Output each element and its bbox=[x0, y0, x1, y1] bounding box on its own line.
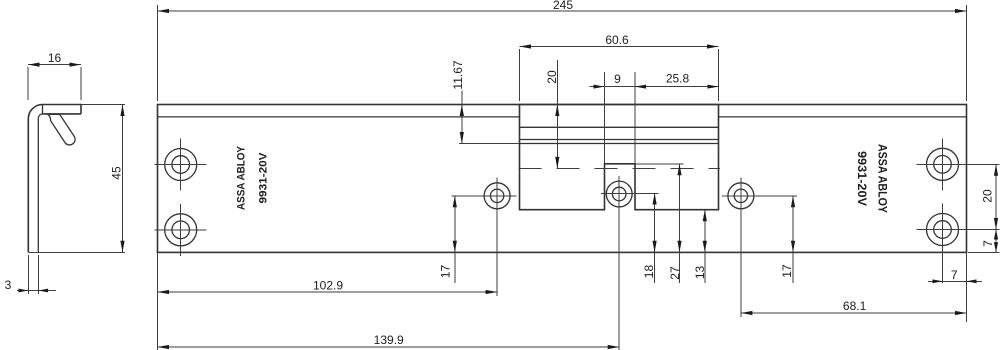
bracket latch keeper bbox=[48, 114, 75, 145]
block dashed centerline bbox=[519, 167, 721, 169]
dim 139.9 bbox=[158, 333, 620, 349]
dim 9 and 25.8 bbox=[590, 72, 719, 164]
bracket fillet tangent tick bbox=[42, 105, 44, 114]
hole H5 mid-left bbox=[452, 178, 517, 297]
dim 7 bottom-right horizontal bbox=[928, 268, 982, 283]
strike block outline with bottom notch bbox=[520, 105, 719, 210]
dim 17 right bbox=[780, 196, 795, 283]
bracket side view outer profile bbox=[28, 105, 81, 253]
dim 102.9 bbox=[158, 252, 498, 350]
dim 11.67 bbox=[451, 60, 520, 143]
bracket inner face bbox=[38, 114, 43, 253]
svg-text:102.9: 102.9 bbox=[313, 279, 343, 293]
dim 245 bbox=[158, 0, 967, 101]
dim 3 bbox=[5, 255, 56, 294]
svg-text:20: 20 bbox=[545, 70, 559, 84]
dim 18 bbox=[642, 193, 657, 283]
svg-text:60.6: 60.6 bbox=[605, 33, 629, 47]
svg-text:11.67: 11.67 bbox=[451, 60, 465, 89]
dim 7 right vertical bbox=[968, 230, 1000, 253]
dim 20 block bbox=[545, 60, 560, 168]
hole H4 bottom-right bbox=[917, 204, 1000, 284]
svg-text:7: 7 bbox=[951, 268, 958, 282]
svg-text:13: 13 bbox=[693, 266, 707, 280]
hole H1 top-left bbox=[155, 139, 207, 191]
svg-text:45: 45 bbox=[110, 166, 124, 180]
svg-text:139.9: 139.9 bbox=[374, 333, 404, 347]
svg-text:9: 9 bbox=[614, 72, 621, 86]
svg-text:9931-20V: 9931-20V bbox=[258, 152, 270, 203]
hole H3 top-right bbox=[917, 138, 1000, 190]
hole H6 center bbox=[601, 176, 659, 350]
hole H2 bottom-left bbox=[155, 204, 207, 256]
svg-text:3: 3 bbox=[5, 278, 12, 292]
plate lip line left bbox=[158, 116, 520, 118]
dim 60.6 bbox=[520, 33, 719, 101]
svg-text:ASSA ABLOY: ASSA ABLOY bbox=[876, 144, 888, 213]
dim 27 bbox=[635, 164, 684, 283]
dim 16 bbox=[28, 51, 81, 100]
dim 20 right bbox=[981, 164, 999, 229]
svg-text:16: 16 bbox=[48, 51, 62, 65]
dim 17 left bbox=[439, 196, 457, 283]
svg-text:68.1: 68.1 bbox=[843, 299, 867, 313]
dim 45 bbox=[28, 105, 125, 253]
hole H7 mid-right bbox=[722, 178, 797, 318]
block interior line 2 bbox=[520, 139, 719, 141]
svg-text:27: 27 bbox=[668, 266, 682, 280]
bracket top piece underside bbox=[43, 113, 82, 115]
svg-text:25.8: 25.8 bbox=[666, 72, 690, 86]
block interior line 3 bbox=[520, 143, 719, 145]
svg-text:7: 7 bbox=[981, 240, 995, 247]
svg-text:245: 245 bbox=[553, 0, 573, 12]
plate lip line right bbox=[719, 116, 967, 118]
svg-text:20: 20 bbox=[981, 189, 995, 203]
svg-text:17: 17 bbox=[780, 264, 794, 278]
svg-text:18: 18 bbox=[642, 265, 656, 279]
svg-text:9931-20V: 9931-20V bbox=[855, 151, 867, 206]
block interior line 1 bbox=[520, 126, 719, 128]
dim 68.1 bbox=[741, 252, 967, 322]
svg-text:ASSA ABLOY: ASSA ABLOY bbox=[236, 146, 248, 210]
svg-text:17: 17 bbox=[439, 265, 453, 279]
main plate outline bbox=[158, 105, 967, 253]
dim 13 bbox=[693, 210, 707, 283]
